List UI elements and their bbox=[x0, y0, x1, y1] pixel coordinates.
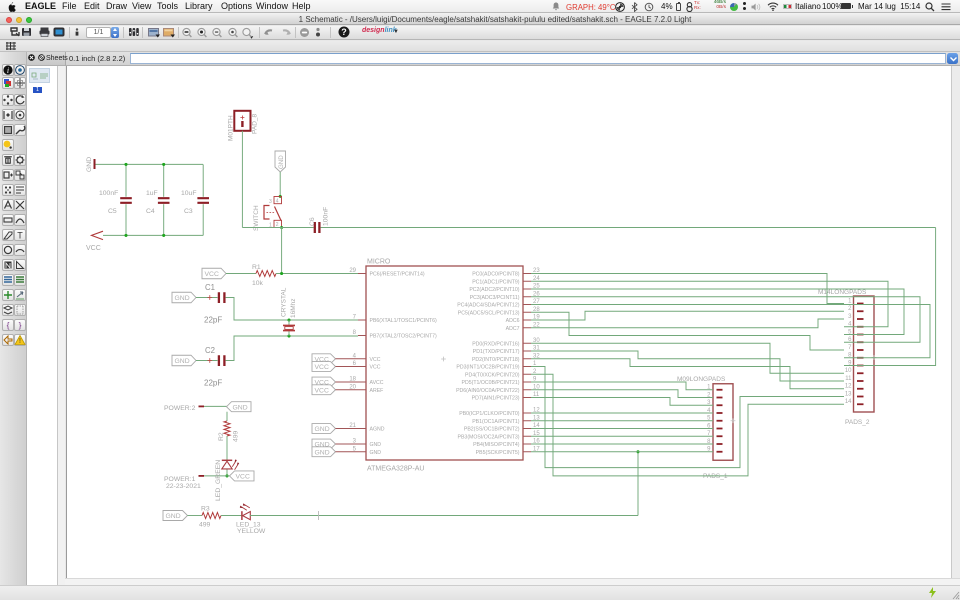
svg-text:PC0(ADC0/PCINT8): PC0(ADC0/PCINT8) bbox=[472, 272, 520, 278]
svg-text:PB6(XTAL1/TOSC1/PCINT6): PB6(XTAL1/TOSC1/PCINT6) bbox=[370, 318, 438, 324]
svg-text:YELLOW: YELLOW bbox=[237, 528, 266, 535]
svg-text:PD7(AIN1/PCINT23): PD7(AIN1/PCINT23) bbox=[472, 396, 520, 402]
svg-text:PC6(/RESET/PCINT14): PC6(/RESET/PCINT14) bbox=[370, 272, 425, 278]
svg-text:C2: C2 bbox=[205, 346, 215, 355]
svg-text:8: 8 bbox=[353, 330, 357, 336]
svg-text:3: 3 bbox=[269, 199, 272, 205]
svg-text:10uF: 10uF bbox=[181, 190, 197, 197]
svg-text:GND: GND bbox=[166, 513, 181, 520]
svg-text:MICRO: MICRO bbox=[367, 259, 391, 266]
svg-text:VCC: VCC bbox=[315, 364, 329, 371]
svg-text:ADC6: ADC6 bbox=[506, 318, 520, 324]
svg-text:PADS_2: PADS_2 bbox=[845, 419, 870, 426]
svg-text:4: 4 bbox=[276, 199, 279, 205]
svg-text:10: 10 bbox=[845, 368, 852, 374]
svg-text:AVCC: AVCC bbox=[370, 380, 384, 386]
svg-text:PB7(XTAL2/TOSC2/PCINT7): PB7(XTAL2/TOSC2/PCINT7) bbox=[370, 334, 438, 340]
svg-text:499: 499 bbox=[199, 522, 211, 529]
svg-text:PC1(ADC1/PCINT9): PC1(ADC1/PCINT9) bbox=[472, 279, 520, 285]
svg-text:VCC: VCC bbox=[370, 357, 381, 363]
svg-text:1uF: 1uF bbox=[146, 190, 158, 197]
svg-text:PC3(ADC3/PCINT11): PC3(ADC3/PCINT11) bbox=[470, 295, 520, 301]
svg-text:1: 1 bbox=[848, 298, 852, 304]
svg-text:PD4(T0/XCK/PCINT20): PD4(T0/XCK/PCINT20) bbox=[465, 372, 520, 378]
svg-text:PD5(T1/OC0B/PCINT21): PD5(T1/OC0B/PCINT21) bbox=[462, 380, 520, 386]
svg-text:PB2(SS/OC1B/PCINT2): PB2(SS/OC1B/PCINT2) bbox=[464, 427, 520, 433]
svg-text:ATMEGA328P-AU: ATMEGA328P-AU bbox=[367, 466, 424, 473]
svg-text:ADC7: ADC7 bbox=[506, 326, 520, 332]
svg-text:GND: GND bbox=[86, 157, 93, 172]
svg-text:13: 13 bbox=[845, 391, 852, 397]
svg-text:POWER:2: POWER:2 bbox=[164, 405, 196, 412]
svg-text:29: 29 bbox=[349, 268, 356, 274]
svg-text:i: i bbox=[6, 66, 8, 75]
svg-text:2: 2 bbox=[848, 306, 852, 312]
svg-text:T: T bbox=[17, 230, 23, 240]
svg-text:100nF: 100nF bbox=[99, 190, 118, 197]
svg-text:VCC: VCC bbox=[370, 365, 381, 371]
svg-text:PD2(INT0/PCINT18): PD2(INT0/PCINT18) bbox=[472, 357, 520, 363]
svg-text:100nF: 100nF bbox=[323, 207, 330, 226]
svg-text:GND: GND bbox=[315, 449, 330, 456]
svg-text:22pF: 22pF bbox=[204, 316, 222, 325]
svg-text:PAD_8: PAD_8 bbox=[252, 114, 259, 134]
svg-text:{: { bbox=[6, 320, 9, 330]
svg-text:PB4(MISO/PCINT4): PB4(MISO/PCINT4) bbox=[473, 442, 520, 448]
svg-text:22pF: 22pF bbox=[204, 379, 222, 388]
svg-text:M01PTH: M01PTH bbox=[228, 115, 235, 141]
svg-text:PD1(TXD/PCINT17): PD1(TXD/PCINT17) bbox=[473, 349, 520, 355]
svg-text:M14LONGPADS: M14LONGPADS bbox=[818, 289, 867, 296]
svg-text:PB0(ICP1/CLKO/PCINT0): PB0(ICP1/CLKO/PCINT0) bbox=[459, 411, 520, 417]
svg-text:C4: C4 bbox=[146, 208, 155, 215]
svg-text:PC4(ADC4/SDA/PCINT12): PC4(ADC4/SDA/PCINT12) bbox=[457, 303, 520, 309]
svg-text:VCC: VCC bbox=[236, 474, 250, 481]
svg-text:PB5(SCK/PCINT5): PB5(SCK/PCINT5) bbox=[476, 450, 520, 456]
svg-text:12: 12 bbox=[845, 384, 852, 390]
svg-text:GND: GND bbox=[175, 358, 190, 365]
svg-text:CRYSTAL: CRYSTAL bbox=[281, 287, 288, 317]
svg-text:GND: GND bbox=[370, 442, 382, 448]
svg-text:PD0(RXD/PCINT16): PD0(RXD/PCINT16) bbox=[472, 341, 520, 347]
svg-text:C1: C1 bbox=[205, 283, 215, 292]
svg-text:!: ! bbox=[19, 338, 21, 345]
svg-text:499: 499 bbox=[233, 430, 240, 442]
svg-text:14: 14 bbox=[845, 399, 852, 405]
svg-text:R3: R3 bbox=[201, 506, 210, 513]
svg-text:R1: R1 bbox=[252, 264, 261, 271]
svg-text:GND: GND bbox=[315, 426, 330, 433]
svg-text:}: } bbox=[19, 320, 22, 330]
svg-text:LED_GREEN: LED_GREEN bbox=[215, 460, 222, 501]
svg-text:VCC: VCC bbox=[205, 271, 219, 278]
svg-text:PADS_1: PADS_1 bbox=[703, 473, 728, 480]
svg-text:C6: C6 bbox=[309, 217, 316, 226]
svg-text:10k: 10k bbox=[252, 280, 264, 287]
svg-text:AGND: AGND bbox=[370, 427, 385, 433]
svg-text:GND: GND bbox=[370, 450, 382, 456]
svg-text:R2: R2 bbox=[218, 432, 225, 441]
svg-text:?: ? bbox=[341, 27, 347, 37]
svg-text:PC2(ADC2/PCINT10): PC2(ADC2/PCINT10) bbox=[469, 287, 519, 293]
svg-text:C3: C3 bbox=[184, 208, 193, 215]
svg-text:C5: C5 bbox=[108, 208, 117, 215]
svg-text:AREF: AREF bbox=[370, 388, 384, 394]
svg-text:GND: GND bbox=[233, 404, 248, 411]
svg-text:VCC: VCC bbox=[315, 387, 329, 394]
svg-text:PB1(OC1A/PCINT1): PB1(OC1A/PCINT1) bbox=[472, 419, 520, 425]
svg-text:22-23-2021: 22-23-2021 bbox=[166, 483, 201, 490]
svg-text:PC5(ADC5/SCL/PCINT13): PC5(ADC5/SCL/PCINT13) bbox=[458, 310, 520, 316]
svg-text:3: 3 bbox=[848, 314, 852, 320]
svg-text:VCC: VCC bbox=[86, 245, 101, 252]
svg-text:PD3(INT1/OC2B/PCINT19): PD3(INT1/OC2B/PCINT19) bbox=[456, 365, 519, 371]
svg-text:16Mhz: 16Mhz bbox=[290, 298, 297, 318]
svg-text:GND: GND bbox=[278, 155, 285, 169]
svg-text:7: 7 bbox=[848, 345, 852, 351]
svg-text:11: 11 bbox=[845, 376, 852, 382]
svg-text:PB3(MOSI/OC2A/PCINT3): PB3(MOSI/OC2A/PCINT3) bbox=[458, 434, 520, 440]
svg-text:PD6(AIN0/OC0A/PCINT22): PD6(AIN0/OC0A/PCINT22) bbox=[456, 388, 520, 394]
svg-text:POWER:1: POWER:1 bbox=[164, 476, 196, 483]
svg-text:GND: GND bbox=[175, 295, 190, 302]
